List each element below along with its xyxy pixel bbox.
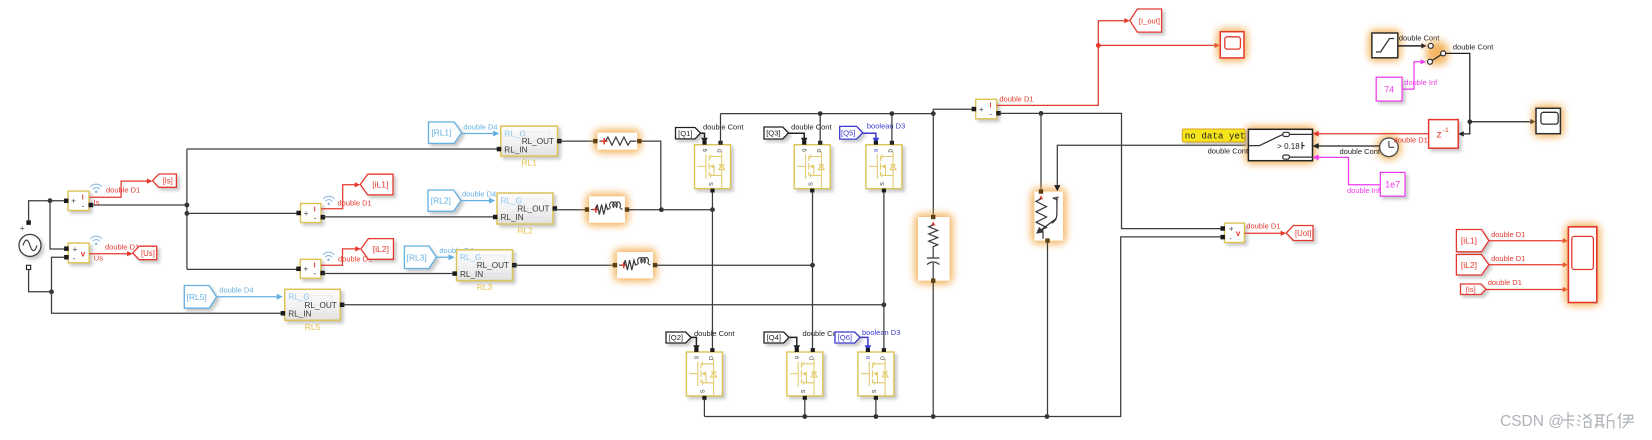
- resistor R1: [594, 129, 641, 153]
- from tag [iL1] (scope): [1456, 230, 1489, 252]
- goto tag [iL1]: [360, 174, 393, 195]
- from tag [Q6]: [835, 332, 860, 343]
- goto tag [Uot]: [1286, 226, 1313, 241]
- svg-text:RL_IN: RL_IN: [288, 310, 311, 319]
- svg-text:S: S: [880, 182, 886, 186]
- signal wire unit delay output to switch: [1318, 133, 1429, 135]
- signal wire manual switch output: [1446, 53, 1470, 121]
- node N (load bottom): [1045, 414, 1050, 419]
- signal wire iL2 to scope2: [1489, 264, 1563, 266]
- arrow into switch top input: [1313, 131, 1319, 137]
- clock block: [1376, 135, 1401, 160]
- wire node C2 to iL1 meter +: [187, 212, 299, 214]
- from tag [RL1]: [429, 122, 462, 143]
- wire node B to voltage meter -: [52, 257, 67, 292]
- svg-text:double D1: double D1: [1246, 222, 1280, 231]
- from tag [Q5]: [840, 126, 863, 139]
- svg-text:[Q2]: [Q2]: [669, 333, 683, 342]
- svg-text:boolean D3: boolean D3: [862, 328, 900, 337]
- signal wire 1e7 to switch: [1318, 157, 1381, 184]
- from tag [RL5]: [184, 286, 216, 309]
- svg-text:[iL1]: [iL1]: [1461, 236, 1477, 246]
- signal wire Q1 gate: [701, 133, 705, 138]
- node E (leg2 midpoint): [810, 263, 815, 268]
- svg-text:D: D: [717, 149, 723, 153]
- svg-text:g: g: [702, 149, 708, 152]
- svg-text:double Inf: double Inf: [1404, 78, 1438, 87]
- svg-text:-: -: [314, 269, 317, 278]
- transistor Q2: [686, 352, 722, 396]
- streaming badge iL1: [323, 196, 334, 201]
- svg-text:Is: Is: [94, 198, 100, 207]
- from tag [Q2]: [666, 332, 691, 343]
- svg-text:D: D: [889, 149, 895, 153]
- signal wire load control: [1057, 145, 1246, 185]
- signal wire RL3 gate: [436, 256, 449, 258]
- svg-text:double D4: double D4: [219, 286, 253, 295]
- signal wire RL2 gate: [461, 200, 490, 202]
- wire RL3s to leg2 midpoint: [655, 264, 813, 266]
- transistor Q6: [858, 352, 894, 396]
- wire Q3 drain riser: [819, 114, 821, 145]
- wire snubber bottom drop: [932, 283, 934, 417]
- signal wire to scope1: [1470, 121, 1531, 123]
- wire bottom DC rail: [704, 237, 1222, 417]
- voltage meter Uot: [1225, 223, 1245, 242]
- svg-text:z: z: [1437, 129, 1442, 141]
- wire R1 to leg1 node: [641, 141, 661, 210]
- svg-text:74: 74: [1384, 85, 1394, 95]
- current meter Is: [68, 191, 89, 210]
- svg-text:D: D: [881, 356, 887, 360]
- svg-text:v: v: [1236, 229, 1241, 238]
- svg-text:+: +: [304, 209, 309, 218]
- node C1 junction: [185, 203, 190, 208]
- value label no data yet: [1182, 129, 1245, 142]
- svg-text:I: I: [82, 194, 84, 201]
- saturation block: [1368, 30, 1401, 62]
- constant 74: [1376, 77, 1402, 101]
- wire Is meter - to node C: [91, 204, 187, 206]
- transistor Q5: [866, 145, 902, 189]
- from tag [Q3]: [764, 127, 789, 139]
- node A (source +): [48, 198, 53, 203]
- svg-text:v: v: [81, 249, 86, 258]
- RC snubber branch: [915, 214, 954, 285]
- goto tag [iL2]: [361, 239, 394, 260]
- wire iL2 meter - to RL3 RL_IN: [323, 273, 455, 275]
- svg-text:+: +: [1229, 225, 1234, 234]
- svg-text:[Us]: [Us]: [141, 249, 155, 258]
- signal wire into unit delay: [1464, 122, 1470, 134]
- svg-text:[iL1]: [iL1]: [372, 180, 388, 190]
- svg-text:S: S: [701, 389, 707, 393]
- from tag [RL2]: [428, 190, 461, 211]
- svg-text:+: +: [73, 245, 78, 254]
- node R (red split): [1096, 43, 1101, 48]
- svg-text:Us: Us: [94, 253, 103, 262]
- signal wire 74 to manual switch: [1402, 62, 1421, 89]
- svg-text:double D1: double D1: [106, 186, 140, 195]
- svg-text:[RL2]: [RL2]: [431, 196, 451, 206]
- svg-text:RL_OUT: RL_OUT: [522, 137, 554, 146]
- scope I_out: [1217, 28, 1248, 61]
- svg-text:[RL3]: [RL3]: [407, 252, 427, 262]
- svg-text:-: -: [989, 110, 992, 119]
- scope2 (multi-channel): [1565, 223, 1600, 306]
- wire top DC rail: [721, 113, 934, 115]
- svg-text:[Uot]: [Uot]: [1295, 229, 1311, 238]
- wire RL2 out to branch RL2s: [553, 209, 587, 211]
- svg-text:g: g: [802, 149, 808, 152]
- transistor Q3: [794, 145, 830, 189]
- wire RL1 out to resistor R1: [558, 140, 596, 142]
- signal wire to current scope: [1098, 44, 1215, 46]
- wire Q6 source drop: [875, 400, 877, 417]
- arrow into switch mid input: [1313, 143, 1319, 149]
- svg-text:RL5: RL5: [305, 322, 321, 332]
- from tag [iL2] (scope): [1456, 255, 1489, 276]
- svg-text:D: D: [709, 356, 715, 360]
- wire node A to voltage meter +: [50, 201, 66, 249]
- streaming badge Us: [91, 236, 102, 241]
- svg-text:no data yet: no data yet: [1185, 131, 1246, 142]
- svg-text:g: g: [873, 149, 879, 152]
- signal wire iL1 measurement: [321, 185, 355, 209]
- node M (snubber bottom): [931, 414, 936, 419]
- node C vertical bus: [186, 149, 188, 269]
- svg-text:double D1: double D1: [1394, 136, 1428, 145]
- svg-text:double D1: double D1: [999, 94, 1033, 103]
- svg-text:double Cont: double Cont: [791, 122, 832, 131]
- svg-text:-: -: [314, 213, 317, 222]
- svg-text:double Cont: double Cont: [694, 329, 735, 338]
- svg-text:RL_OUT: RL_OUT: [304, 301, 336, 310]
- svg-text:double D4: double D4: [463, 122, 497, 131]
- wire source - to bottom node: [29, 270, 52, 292]
- svg-text:S: S: [809, 182, 815, 186]
- svg-text:[Q3]: [Q3]: [766, 129, 780, 138]
- arrow into switch bottom input: [1313, 155, 1319, 161]
- svg-text:[Is]: [Is]: [1466, 285, 1476, 294]
- svg-text:boolean D3: boolean D3: [867, 122, 905, 131]
- wire node C bottom to iL2 meter +: [187, 268, 299, 270]
- wire RL3 out to branch RL3s: [513, 264, 616, 266]
- node D2 (leg1 midpoint): [710, 207, 715, 212]
- goto tag [Us]: [133, 246, 157, 260]
- wire I_out - to Uot + corner: [999, 113, 1223, 228]
- svg-text:-: -: [1229, 234, 1232, 243]
- svg-text:double D4: double D4: [462, 190, 496, 199]
- wire RL2s to leg1 midpoint: [627, 209, 712, 211]
- signal wire Is to scope2: [1486, 289, 1563, 291]
- streaming badge iL2: [323, 252, 334, 257]
- svg-text:-: -: [82, 201, 85, 210]
- scope1 (top right): [1533, 105, 1564, 137]
- svg-text:double Cont: double Cont: [1208, 147, 1249, 156]
- wire leg2 vertical Q3S-Q4D: [812, 193, 814, 349]
- wire rail to output current meter +: [933, 109, 974, 113]
- svg-text:g: g: [694, 356, 700, 359]
- svg-text:RL_IN: RL_IN: [504, 145, 527, 154]
- subsystem RL3: [457, 250, 513, 281]
- subsystem RL5: [285, 289, 341, 320]
- AC voltage source: [19, 234, 41, 256]
- svg-text:RL_IN: RL_IN: [501, 213, 524, 222]
- signal wire Q4 gate: [789, 337, 797, 345]
- svg-text:S: S: [872, 389, 878, 393]
- switch block (threshold 0.18): [1245, 126, 1316, 164]
- node L (Q6 source): [874, 414, 879, 419]
- signal wire Q6 gate: [860, 337, 868, 345]
- svg-text:1e7: 1e7: [1385, 180, 1400, 190]
- svg-text:double Cont: double Cont: [1340, 147, 1381, 156]
- svg-text:g: g: [794, 356, 800, 359]
- svg-text:+: +: [20, 223, 25, 233]
- svg-text:double D1: double D1: [1491, 254, 1525, 263]
- svg-text:D: D: [817, 149, 823, 153]
- wire Q5 drain riser: [891, 114, 893, 145]
- signal wire RL5 gate: [217, 296, 278, 298]
- goto tag [Is]: [153, 174, 177, 187]
- svg-text:RL_OUT: RL_OUT: [477, 261, 509, 270]
- wire snubber top drop: [932, 114, 934, 215]
- signal wire Is measurement: [90, 181, 148, 197]
- signal wire Q3 gate: [789, 133, 805, 138]
- transistor Q4: [787, 352, 823, 396]
- svg-text:double D1: double D1: [338, 198, 372, 207]
- wire iL1 meter - to RL2 RL_IN: [323, 216, 495, 218]
- svg-text:[I_out]: [I_out]: [1139, 16, 1160, 25]
- from tag [Q1]: [676, 128, 701, 139]
- svg-text:I: I: [314, 263, 316, 270]
- svg-text:double Inf: double Inf: [1347, 186, 1381, 195]
- wire leg1 vertical Q1S-Q2D: [711, 193, 713, 349]
- signal wire RL1 gate: [462, 133, 494, 135]
- subsystem RL1: [501, 126, 558, 156]
- svg-text:RL2: RL2: [517, 226, 533, 236]
- svg-text:I: I: [990, 103, 992, 110]
- svg-text:S: S: [709, 182, 715, 186]
- from tag [RL3]: [404, 246, 436, 269]
- svg-text:[Q5]: [Q5]: [841, 128, 855, 137]
- node S (switch output split): [1467, 119, 1472, 124]
- from tag [Q4]: [764, 332, 789, 343]
- voltage meter Us: [68, 243, 89, 263]
- current meter iL2: [300, 259, 321, 278]
- node G (Q3 drain): [818, 111, 823, 116]
- series RL branch RL3s: [614, 249, 657, 282]
- svg-text:[RL5]: [RL5]: [187, 292, 207, 302]
- wire Q2 source drop: [703, 400, 705, 417]
- wire load bottom drop: [1047, 243, 1049, 417]
- svg-text:RL1: RL1: [521, 158, 537, 168]
- node C2 junction: [185, 211, 190, 216]
- series RL branch RL2s: [586, 193, 629, 226]
- svg-text:double D1: double D1: [105, 242, 139, 251]
- wire node C to RL1 RL_IN: [187, 148, 499, 150]
- goto tag [I_out]: [1130, 9, 1162, 32]
- wire Q1 drain riser: [720, 114, 722, 145]
- node K (Q4 source): [802, 414, 807, 419]
- signal wire saturation to manual switch: [1398, 45, 1422, 47]
- node D1 (R1 join): [659, 207, 664, 212]
- svg-text:[iL2]: [iL2]: [373, 244, 389, 254]
- transistor Q1: [695, 145, 731, 189]
- wire load left drop: [1040, 113, 1042, 189]
- svg-text:+: +: [979, 105, 984, 114]
- wire Q4 source drop: [804, 400, 806, 417]
- wire source + to current meter: [29, 201, 67, 221]
- node J (rail corner): [931, 111, 936, 116]
- svg-text:-: -: [73, 254, 76, 263]
- signal wire I_out measurement: [997, 21, 1125, 106]
- node F (leg3 midpoint): [882, 302, 887, 307]
- signal wire Uot measurement: [1244, 232, 1281, 234]
- svg-text:D: D: [810, 356, 816, 360]
- svg-text:+: +: [71, 197, 76, 206]
- signal wire Q5 gate: [863, 133, 876, 138]
- streaming badge Is: [91, 184, 102, 189]
- from tag [Is] (scope): [1461, 284, 1487, 295]
- svg-text:CSDN @: CSDN @: [1500, 413, 1564, 430]
- node H (Q5 drain): [890, 111, 895, 116]
- signal wire Q2 gate: [691, 337, 696, 345]
- svg-text:double Cont: double Cont: [703, 122, 744, 131]
- svg-text:RL3: RL3: [477, 282, 493, 292]
- wire leg3 vertical Q5S-Q6D: [883, 193, 885, 349]
- svg-text:[RL1]: [RL1]: [431, 128, 451, 138]
- wire RL5 out to leg3 midpoint: [342, 304, 884, 306]
- current meter I_out: [976, 99, 997, 119]
- node B (source -): [49, 289, 54, 294]
- signal wire clock to switch: [1318, 145, 1380, 147]
- svg-text:[Q1]: [Q1]: [678, 129, 692, 138]
- svg-text:> 0.18: > 0.18: [1277, 142, 1300, 151]
- variable load block: [1031, 188, 1067, 244]
- svg-text:double D1: double D1: [1488, 278, 1522, 287]
- svg-text:-1: -1: [1443, 127, 1449, 134]
- svg-text:[Q6]: [Q6]: [838, 333, 852, 342]
- svg-text:RL_IN: RL_IN: [460, 270, 483, 279]
- node P (load top): [1039, 111, 1044, 116]
- svg-text:RL_OUT: RL_OUT: [517, 205, 549, 214]
- svg-text:double Cont: double Cont: [1453, 42, 1494, 51]
- signal wire iL2 measurement: [321, 249, 356, 265]
- svg-text:+: +: [304, 265, 309, 274]
- current meter iL1: [301, 204, 322, 223]
- wire node B to RL5 RL_IN: [52, 292, 283, 314]
- unit delay block: [1429, 120, 1459, 149]
- svg-text:double D1: double D1: [1491, 230, 1525, 239]
- svg-text:[iL2]: [iL2]: [1461, 260, 1477, 270]
- signal wire Us measurement: [89, 253, 127, 255]
- svg-text:[Is]: [Is]: [162, 176, 172, 185]
- svg-text:I: I: [314, 207, 316, 214]
- constant 1e7: [1380, 172, 1405, 196]
- svg-text:S: S: [801, 389, 807, 393]
- subsystem RL2: [497, 193, 553, 224]
- manual switch: [1426, 41, 1448, 65]
- svg-text:g: g: [865, 356, 871, 359]
- svg-text:[Q4]: [Q4]: [767, 333, 781, 342]
- signal wire iL1 to scope2: [1489, 240, 1563, 242]
